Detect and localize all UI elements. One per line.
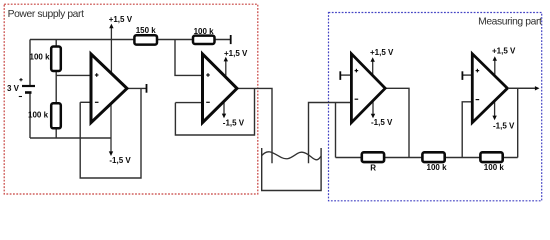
wire divider vertical	[55, 40, 57, 139]
resistor 100k measuring 2	[480, 152, 504, 172]
power supply part dashed border	[4, 4, 258, 194]
svg-text:-1,5 V: -1,5 V	[223, 118, 245, 127]
op-amp U3	[351, 54, 385, 123]
svg-text:150 k: 150 k	[136, 26, 157, 35]
resistor 100k top	[193, 27, 215, 44]
supply arrow +1.5V U1	[109, 15, 133, 80]
wire U1 - input	[80, 101, 90, 103]
wire branch to measuring bottom rail	[335, 103, 337, 158]
svg-text:R: R	[370, 164, 376, 173]
resistor 100k divider bottom	[28, 103, 61, 128]
resistor 100k divider top	[30, 47, 61, 72]
wire node A vertical to U2 + input	[175, 40, 202, 76]
supply arrow -1.5V U2	[222, 95, 245, 127]
svg-text:+1,5 V: +1,5 V	[370, 48, 394, 57]
resistor 100k measuring 1	[422, 152, 447, 172]
liquid wave	[262, 152, 322, 160]
svg-text:100 k: 100 k	[194, 27, 215, 36]
svg-text:+1,5 V: +1,5 V	[492, 46, 516, 55]
wire top rail	[30, 39, 231, 41]
wire U4 feedback drop	[517, 88, 519, 157]
svg-text:100 k: 100 k	[28, 111, 49, 120]
wire right electrode to U3 - input	[309, 103, 351, 164]
svg-text:-1,5 V: -1,5 V	[109, 156, 131, 165]
terminal T-bar U3 + input	[339, 71, 341, 80]
battery 3V plates	[22, 86, 35, 93]
wire U4 - input riser	[462, 102, 472, 158]
supply arrow +1.5V U2	[224, 49, 248, 80]
svg-text:100 k: 100 k	[30, 53, 51, 62]
battery - sign	[19, 96, 22, 98]
resistor 150k	[134, 26, 157, 44]
measuring part dashed border	[329, 13, 542, 201]
wire bottom rail	[30, 137, 111, 139]
svg-text:-1,5 V: -1,5 V	[493, 121, 515, 130]
supply arrow -1.5V U4	[492, 95, 515, 130]
svg-text:Measuring part: Measuring part	[478, 17, 542, 28]
op-amp U2	[203, 54, 238, 123]
beaker cell	[262, 148, 321, 191]
terminal T-bar U1 output	[146, 84, 148, 93]
svg-text:+1,5 V: +1,5 V	[224, 49, 248, 58]
supply arrow +1.5V U3	[370, 48, 394, 80]
op-amp U4	[472, 54, 507, 123]
wire U2 output to left electrode	[237, 88, 272, 163]
resistor R	[362, 152, 384, 172]
battery + sign	[19, 78, 22, 81]
svg-text:100 k: 100 k	[484, 163, 505, 172]
wire U4 output	[507, 87, 535, 89]
wire U2 feedback loop	[175, 88, 254, 135]
wire U2 - input	[175, 102, 202, 104]
wire battery negative to bottom rail	[29, 93, 31, 138]
supply arrow -1.5V U1	[109, 95, 132, 165]
svg-text:Power supply part: Power supply part	[8, 9, 84, 20]
wire divider midpoint to op-amp U1 + input	[56, 74, 90, 76]
svg-text:100 k: 100 k	[427, 163, 448, 172]
output arrow	[508, 86, 540, 90]
wire U1 feedback loop	[80, 88, 141, 178]
wire U4 + input stub	[462, 74, 472, 76]
terminal T-bar U4 + input	[461, 71, 463, 80]
wire U3 output with feedback drop	[385, 88, 409, 157]
op-amp U1	[91, 54, 127, 123]
wire U3 + input stub	[340, 74, 351, 76]
svg-text:+1,5 V: +1,5 V	[109, 15, 133, 24]
wire measuring bottom rail	[336, 157, 518, 159]
svg-text:3 V: 3 V	[7, 84, 20, 93]
supply arrow +1.5V U4	[492, 46, 516, 80]
wire left vertical from top rail to battery	[29, 40, 31, 86]
svg-text:-1,5 V: -1,5 V	[371, 118, 393, 127]
wire U1 output	[127, 87, 147, 89]
terminal T-bar after 100k	[230, 35, 232, 44]
supply arrow -1.5V U3	[371, 95, 393, 127]
